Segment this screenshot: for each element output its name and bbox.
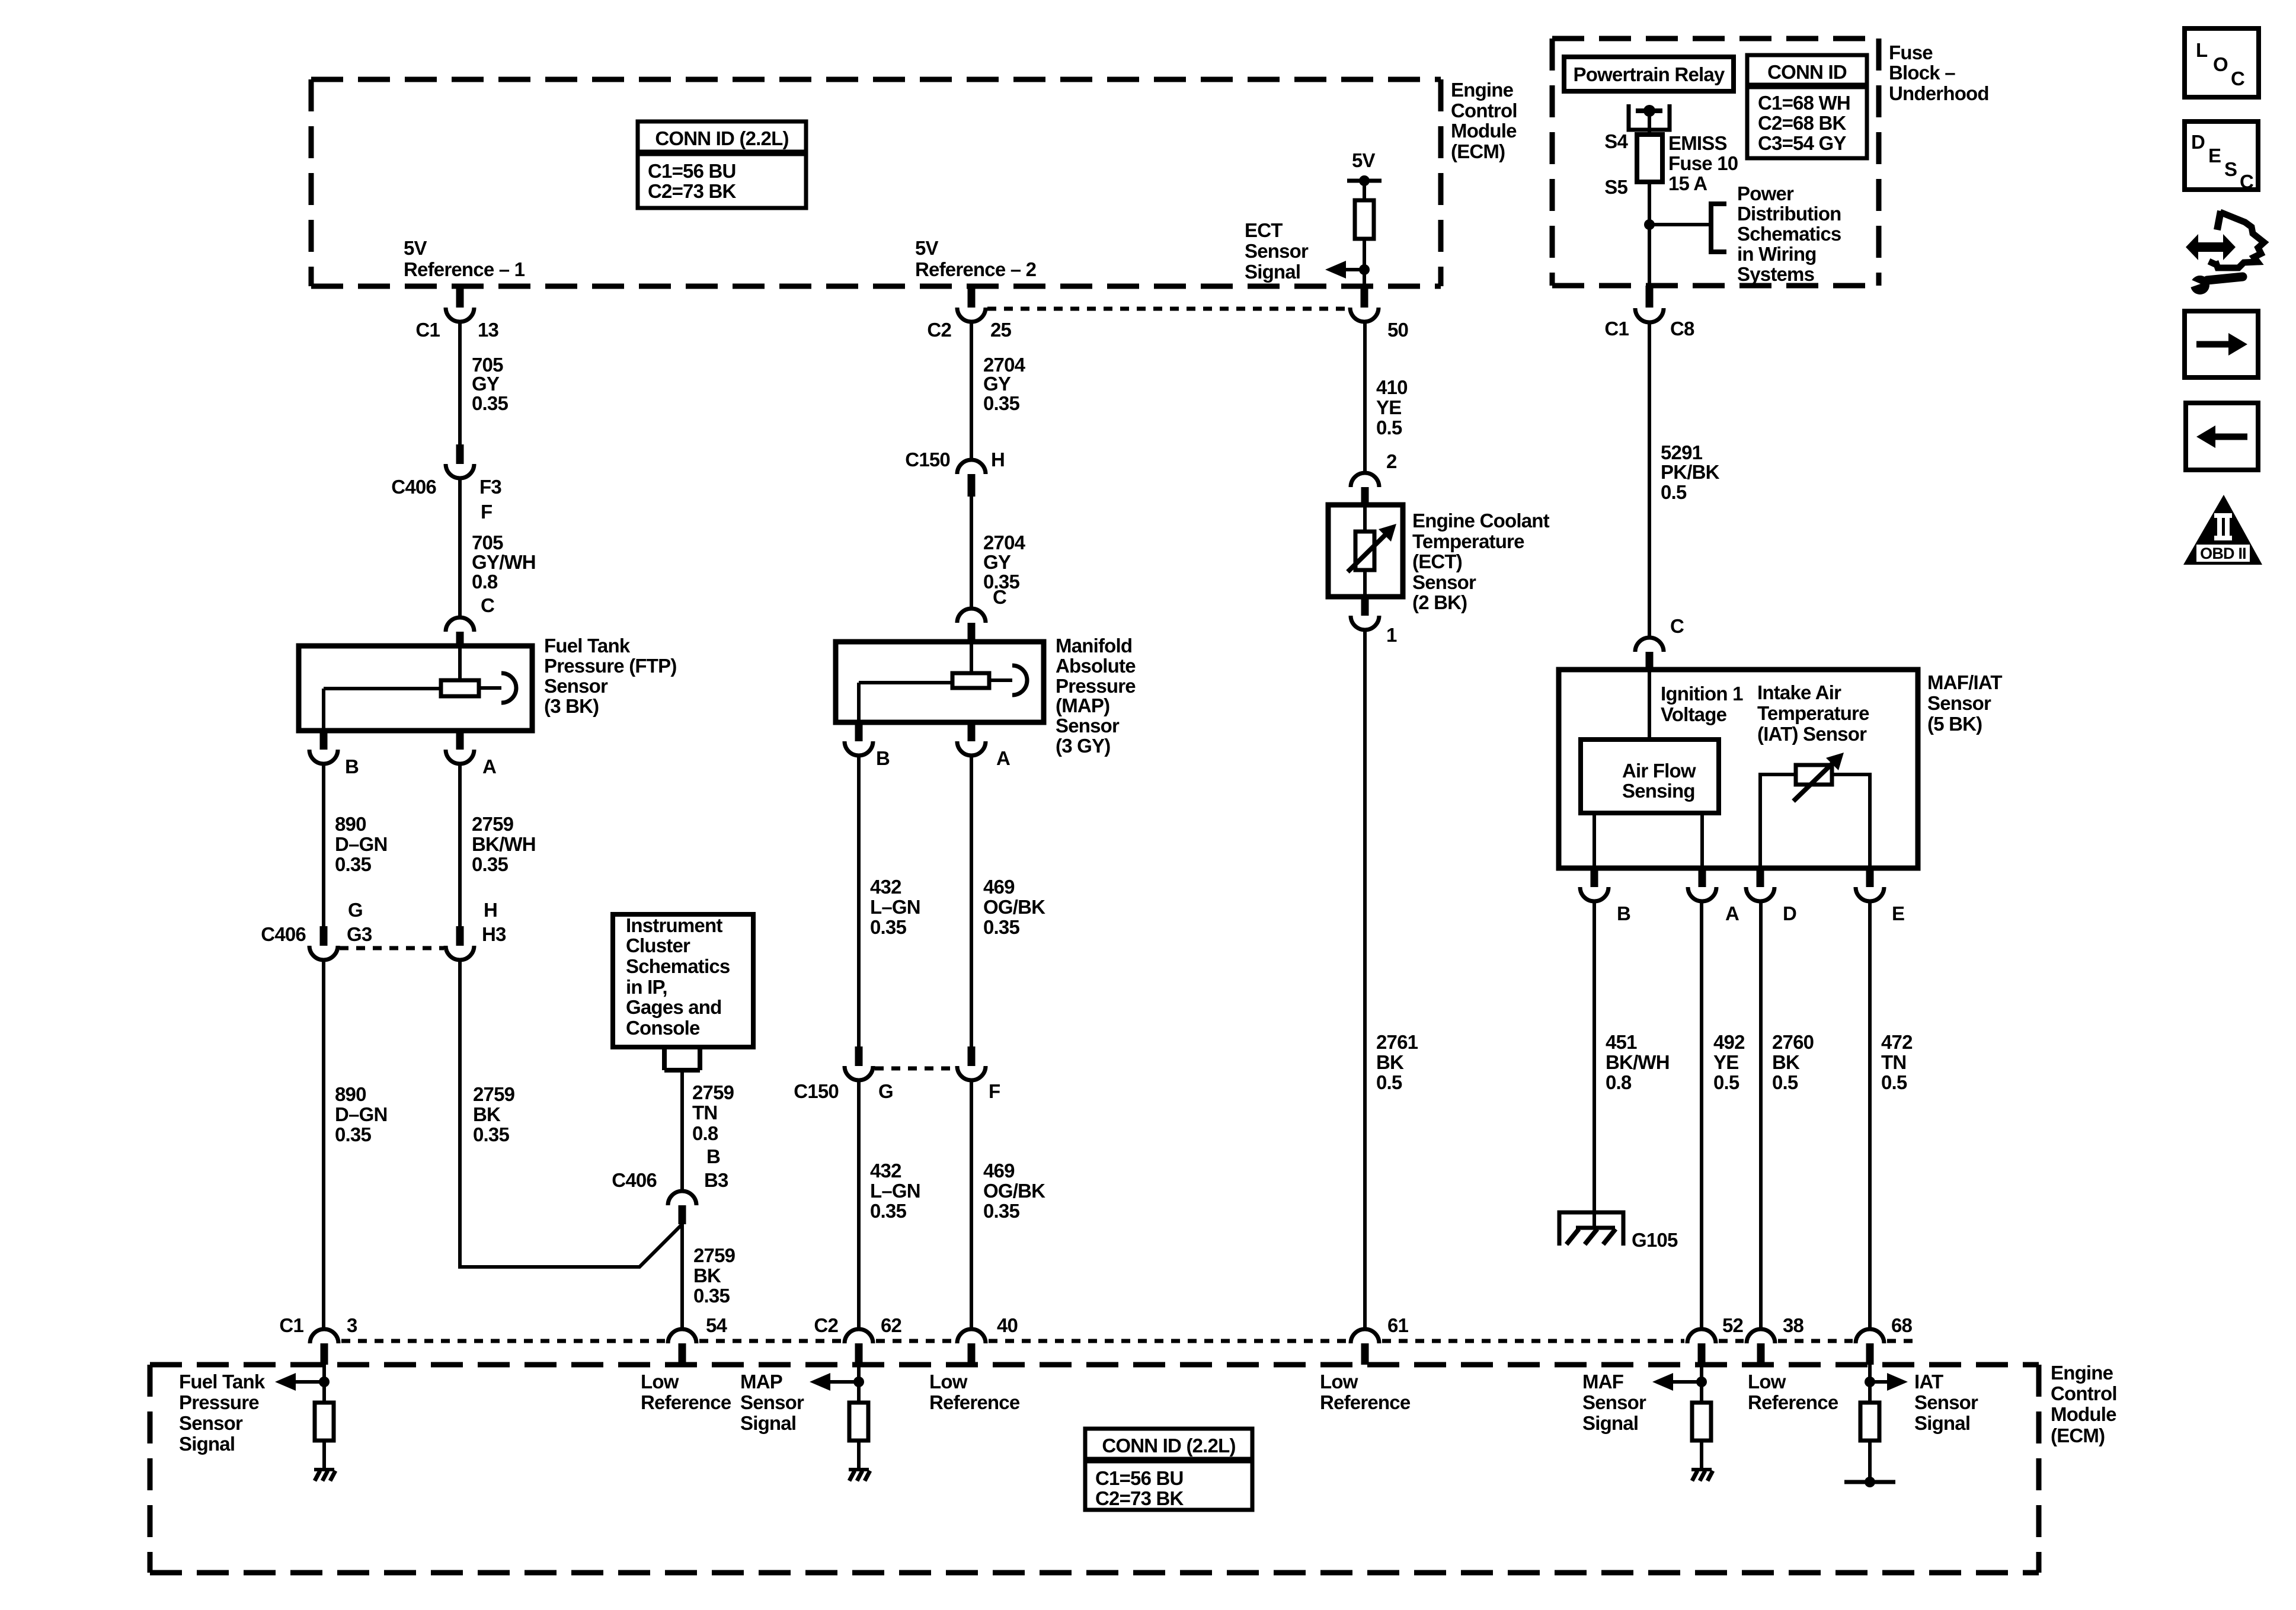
svg-text:Module: Module [1451, 120, 1517, 142]
svg-text:S4: S4 [1604, 130, 1628, 152]
svg-text:2761: 2761 [1376, 1031, 1418, 1053]
wire 492 YE 0.5 to 52 [1700, 901, 1703, 1330]
svg-text:C2: C2 [814, 1314, 838, 1336]
svg-text:Fuel Tank: Fuel Tank [544, 635, 631, 657]
svg-text:B3: B3 [704, 1169, 728, 1191]
svg-text:Low: Low [929, 1371, 968, 1393]
connector pin 40 (ECM bottom) [957, 1314, 1018, 1365]
label Intake Air Temperature (IAT) Sensor [1757, 681, 1869, 745]
svg-text:5V: 5V [1352, 149, 1376, 171]
connector C150 pin G inline [794, 1046, 893, 1102]
svg-text:0.35: 0.35 [870, 1200, 906, 1222]
svg-text:5291: 5291 [1661, 441, 1703, 463]
svg-text:C2: C2 [927, 319, 951, 341]
svg-text:Air Flow: Air Flow [1622, 760, 1696, 782]
svg-text:GY/WH: GY/WH [472, 551, 536, 573]
label wire 890 D-GN 0.35 [335, 813, 388, 875]
label Fuel Tank Pressure Sensor Signal [179, 1371, 266, 1455]
svg-text:Absolute: Absolute [1056, 655, 1136, 677]
svg-text:G: G [348, 899, 363, 921]
MAF internal pin B lead [1593, 813, 1596, 868]
wire 472 TN 0.5 to 68 [1868, 901, 1872, 1330]
svg-text:Pressure: Pressure [179, 1391, 259, 1413]
svg-text:Sensor: Sensor [1582, 1391, 1646, 1413]
svg-text:2759: 2759 [472, 813, 514, 835]
connector C1 pin C8 (fuse block) [1604, 286, 1694, 340]
svg-text:0.5: 0.5 [1713, 1071, 1739, 1093]
wire 5291 PK/BK 0.5 [1648, 322, 1651, 638]
wire resistor to ground [322, 1441, 326, 1470]
svg-text:BK: BK [1772, 1051, 1800, 1073]
svg-text:BK: BK [693, 1265, 721, 1286]
svg-text:Reference – 2: Reference – 2 [915, 258, 1037, 280]
connector C150 pin F inline [957, 1046, 1000, 1102]
svg-text:H: H [484, 899, 497, 921]
svg-text:C: C [993, 586, 1006, 608]
wire relay to fuse [1648, 111, 1651, 135]
resistor ECT pull-up inside ECM [1355, 200, 1374, 239]
svg-text:OBD II: OBD II [2200, 545, 2246, 562]
svg-text:0.8: 0.8 [472, 571, 498, 593]
svg-text:Low: Low [641, 1371, 679, 1393]
svg-text:H3: H3 [482, 923, 506, 945]
connector pin 61 (ECM bottom) [1351, 1314, 1409, 1365]
svg-text:Fuse 10: Fuse 10 [1668, 152, 1738, 174]
svg-text:D: D [2191, 131, 2205, 153]
relay output terminal bracket [1629, 104, 1670, 130]
ground G105 [1559, 1212, 1678, 1251]
svg-text:Control: Control [1451, 100, 1517, 121]
svg-text:Low: Low [1320, 1371, 1358, 1393]
ECT sensor box [1328, 505, 1403, 597]
svg-text:Sensor: Sensor [740, 1391, 804, 1413]
label Low Reference (40) [929, 1371, 1020, 1413]
svg-text:C: C [481, 594, 494, 616]
svg-text:C1=68 WH: C1=68 WH [1758, 92, 1850, 114]
svg-text:54: 54 [706, 1314, 728, 1336]
wire 2761 BK 0.5 to pin 61 [1363, 630, 1367, 1330]
ECT internal lead bottom [1363, 570, 1367, 597]
wire 2759 BK 0.35 from H3 [460, 960, 682, 1267]
label wire 2704 GY 0.35 [983, 354, 1026, 414]
label Power Distribution Schematics in Wiring Systems [1737, 183, 1841, 285]
connector FTP pin A [446, 731, 496, 777]
svg-text:2: 2 [1386, 450, 1397, 472]
label Fuse Block - Underhood [1889, 41, 1989, 104]
label wire 705 GY 0.35 [472, 354, 508, 414]
label wire 2759 BK/WH 0.35 [472, 813, 536, 875]
svg-text:Powertrain Relay: Powertrain Relay [1574, 63, 1725, 85]
MAP internal pin C lead [970, 642, 973, 673]
connector FTP pin C [446, 617, 474, 646]
svg-text:CONN ID: CONN ID [1767, 61, 1847, 83]
svg-text:410: 410 [1376, 376, 1408, 398]
label wire 451 BK/WH 0.8 [1606, 1031, 1670, 1093]
MAF/IAT sensor box [1559, 670, 1918, 868]
svg-text:15 A: 15 A [1668, 172, 1707, 194]
svg-text:H: H [991, 449, 1005, 470]
wire 469 OG/BK 0.35 lower to 40 [970, 1080, 973, 1330]
connector pin 38 (ECM bottom) [1747, 1314, 1804, 1365]
svg-text:YE: YE [1713, 1051, 1738, 1073]
svg-text:Power: Power [1737, 183, 1794, 204]
svg-text:C1: C1 [415, 319, 440, 341]
svg-text:Engine Coolant: Engine Coolant [1412, 510, 1550, 532]
svg-text:A: A [996, 747, 1010, 769]
label Engine Control Module (ECM) bottom right [2051, 1362, 2117, 1446]
label MAP Sensor Signal [740, 1371, 804, 1434]
svg-text:890: 890 [335, 813, 366, 835]
svg-text:0.35: 0.35 [335, 1124, 371, 1145]
wire IAT signal arrow [1865, 1373, 1908, 1391]
svg-text:OG/BK: OG/BK [983, 1180, 1045, 1202]
svg-text:Temperature: Temperature [1412, 530, 1524, 552]
label Fuel Tank Pressure (FTP) Sensor (3 BK) [544, 635, 677, 717]
SEC_ECTCOL2 [1559, 322, 2002, 1330]
svg-text:Control: Control [2051, 1382, 2117, 1404]
svg-text:0.8: 0.8 [1606, 1071, 1632, 1093]
svg-text:Sensor: Sensor [1412, 571, 1476, 593]
svg-text:62: 62 [881, 1314, 902, 1336]
svg-text:Block –: Block – [1889, 62, 1955, 84]
svg-text:(5 BK): (5 BK) [1927, 713, 1982, 735]
svg-text:0.35: 0.35 [983, 1200, 1019, 1222]
ECM top dashed box [311, 79, 1441, 286]
SEC_SIDEBAR2 [261, 322, 682, 1330]
connector pin 68 (ECM bottom) [1856, 1314, 1913, 1365]
MAF internal ignition lead [1648, 670, 1651, 740]
svg-text:Low: Low [1748, 1371, 1786, 1393]
label wire 2761 BK 0.5 [1376, 1031, 1418, 1093]
wire 705 GY 0.35 [458, 322, 462, 444]
svg-text:BK: BK [473, 1103, 501, 1125]
wire pin3 to resistor [322, 1365, 326, 1403]
wire dashed C150 coupling [875, 1067, 955, 1071]
ground MAP signal [849, 1470, 870, 1481]
wire 410 YE 0.5 [1363, 322, 1367, 473]
svg-text:Schematics: Schematics [626, 955, 730, 977]
svg-text:CONN ID (2.2L): CONN ID (2.2L) [1102, 1435, 1235, 1457]
svg-text:C8: C8 [1670, 318, 1694, 340]
svg-text:D: D [1783, 902, 1796, 924]
wire 890 D-GN 0.35 upper [322, 764, 325, 926]
svg-text:E: E [1892, 902, 1904, 924]
node junction dot power distribution tap [1644, 219, 1655, 230]
svg-text:1: 1 [1386, 624, 1397, 646]
svg-text:Engine: Engine [2051, 1362, 2113, 1384]
wire 432 L-GN 0.35 lower to 62 [857, 1080, 861, 1330]
svg-text:F: F [989, 1080, 1000, 1102]
wire MAF signal arrow [1652, 1373, 1707, 1391]
label wire 2760 BK 0.5 [1772, 1031, 1814, 1093]
FTP internal ground lead [324, 689, 441, 731]
svg-text:890: 890 [335, 1083, 366, 1105]
IAT thermistor element [1796, 765, 1832, 785]
wire resistor to terminal [1868, 1441, 1872, 1482]
svg-text:Sensing: Sensing [1622, 780, 1695, 802]
svg-text:0.35: 0.35 [870, 916, 906, 938]
svg-text:Underhood: Underhood [1889, 82, 1989, 104]
connector MAP pin A [957, 722, 1010, 769]
ECM bottom dashed box [150, 1365, 2039, 1573]
svg-text:D–GN: D–GN [335, 1103, 388, 1125]
svg-text:2704: 2704 [983, 532, 1026, 553]
wire pin68 to resistor [1868, 1365, 1872, 1403]
SEC_TOPECM2 [1552, 39, 1989, 340]
CONN ID (2.2L) table bottom [1085, 1429, 1252, 1510]
ECT internal lead top [1363, 505, 1367, 532]
svg-text:D–GN: D–GN [335, 833, 388, 855]
label Engine Coolant Temperature (ECT) Sensor (2 BK) [1412, 510, 1550, 613]
Powertrain Relay box [1564, 57, 1734, 91]
svg-text:469: 469 [983, 1160, 1015, 1182]
svg-text:Signal: Signal [1914, 1412, 1970, 1434]
svg-text:BK: BK [1376, 1051, 1404, 1073]
svg-text:38: 38 [1783, 1314, 1804, 1336]
svg-text:CONN ID (2.2L): CONN ID (2.2L) [655, 127, 788, 149]
MAF internal pin A lead [1700, 813, 1704, 868]
svg-text:Signal: Signal [1582, 1412, 1638, 1434]
svg-text:5V: 5V [915, 237, 939, 259]
connector ECT pin 1 [1351, 597, 1397, 646]
svg-text:A: A [1725, 902, 1739, 924]
icon OBD II triangle [2183, 495, 2262, 565]
SEC_MAFCOL2 [150, 1314, 2117, 1573]
svg-text:A: A [482, 756, 496, 777]
connector C406 pin G3/G inline [261, 899, 372, 960]
net label 5V Reference - 1 [404, 237, 525, 280]
connector pin 50 (ECM ECT signal) [1350, 286, 1408, 341]
svg-text:in IP,: in IP, [626, 976, 667, 998]
svg-text:0.8: 0.8 [692, 1122, 718, 1144]
svg-text:25: 25 [990, 319, 1012, 341]
svg-text:0.35: 0.35 [472, 392, 508, 414]
svg-text:B: B [345, 756, 359, 777]
wire 2759 BK/WH 0.35 [458, 764, 462, 926]
svg-text:Sensor: Sensor [1914, 1391, 1978, 1413]
svg-text:Signal: Signal [179, 1433, 235, 1455]
connector MAP pin B [845, 722, 890, 769]
connector FTP pin B [309, 731, 359, 777]
connector C1 pin 3 (ECM bottom) [279, 1314, 357, 1365]
label wire 432 L-GN 0.35 [870, 876, 920, 938]
svg-text:Fuel Tank: Fuel Tank [179, 1371, 266, 1393]
connector C406 pin B3 inline [612, 1169, 728, 1224]
svg-text:Signal: Signal [1245, 261, 1300, 283]
svg-text:451: 451 [1606, 1031, 1637, 1053]
connector pin 52 (ECM bottom) [1687, 1314, 1744, 1365]
wire resistor to ground [1700, 1441, 1703, 1470]
SEC_FUSEBLOCK2 [2183, 28, 2264, 565]
resistor MAP signal load [849, 1403, 868, 1441]
svg-text:EMISS: EMISS [1668, 132, 1727, 154]
label wire 2704 GY 0.35 lower [983, 532, 1026, 593]
wire MAP signal arrow [810, 1373, 864, 1391]
wire 5V to resistor [1363, 181, 1366, 200]
svg-text:0.35: 0.35 [473, 1124, 509, 1145]
svg-text:0.5: 0.5 [1881, 1071, 1907, 1093]
label wire 890 D-GN 0.35 lower [335, 1083, 388, 1145]
label Ignition 1 Voltage [1661, 683, 1743, 725]
svg-text:C406: C406 [391, 476, 436, 498]
MAP internal ground lead [859, 683, 952, 722]
CONN ID table fuse block [1747, 55, 1867, 158]
svg-text:L: L [2196, 39, 2208, 61]
svg-text:0.35: 0.35 [693, 1285, 730, 1307]
svg-text:C2=68 BK: C2=68 BK [1758, 112, 1847, 134]
svg-text:Reference – 1: Reference – 1 [404, 258, 525, 280]
connector MAP pin C [957, 609, 986, 642]
svg-text:0.35: 0.35 [983, 916, 1019, 938]
svg-text:PK/BK: PK/BK [1661, 461, 1720, 483]
wire 890 D-GN 0.35 lower to pin 3 [322, 960, 325, 1330]
svg-text:0.5: 0.5 [1376, 1071, 1402, 1093]
svg-text:Cluster: Cluster [626, 934, 690, 956]
SEC_CLUSTER2 [794, 322, 1136, 1330]
Fuse Block Underhood dashed box [1552, 39, 1879, 286]
svg-text:(MAP): (MAP) [1056, 694, 1109, 716]
FTP sensor box [299, 646, 532, 731]
net label 5V Reference - 2 [915, 237, 1037, 280]
label wire 469 OG/BK 0.35 lower [983, 1160, 1045, 1222]
svg-text:MAP: MAP [740, 1371, 782, 1393]
wire pin62 to resistor [857, 1365, 861, 1403]
svg-text:Ignition 1: Ignition 1 [1661, 683, 1743, 705]
svg-text:2760: 2760 [1772, 1031, 1814, 1053]
svg-text:0.35: 0.35 [335, 853, 371, 875]
svg-text:C150: C150 [794, 1080, 839, 1102]
svg-text:(3 BK): (3 BK) [544, 695, 599, 717]
svg-text:C2=73 BK: C2=73 BK [648, 180, 737, 202]
svg-text:Reference: Reference [1320, 1391, 1411, 1413]
resistor FTP signal load [315, 1403, 334, 1441]
icon forward arrow box [2185, 311, 2258, 377]
wire fuse down to box edge [1648, 182, 1651, 286]
svg-text:B: B [876, 747, 890, 769]
svg-text:C: C [2240, 171, 2253, 193]
ground MAF signal [1691, 1470, 1713, 1481]
label ECT Sensor Signal [1245, 219, 1309, 283]
svg-text:ECT: ECT [1245, 219, 1283, 241]
label wire 469 OG/BK 0.35 [983, 876, 1045, 938]
svg-text:40: 40 [997, 1314, 1018, 1336]
svg-text:B: B [1617, 902, 1630, 924]
node IAT low reference terminal [1844, 1477, 1895, 1487]
connector C150 pin H inline [905, 449, 1005, 497]
ECT thermistor element [1355, 532, 1374, 570]
svg-text:Reference: Reference [929, 1391, 1020, 1413]
svg-text:61: 61 [1387, 1314, 1409, 1336]
wire 2704 GY 0.35 lower [970, 497, 973, 609]
svg-text:C406: C406 [261, 923, 306, 945]
svg-text:G3: G3 [347, 923, 372, 945]
IAT internal pin D lead [1760, 774, 1796, 868]
node junction dot ECT signal [1359, 264, 1370, 275]
label IAT Sensor Signal [1914, 1371, 1978, 1434]
connector MAF pin B [1580, 868, 1630, 924]
svg-text:Intake Air: Intake Air [1757, 681, 1841, 703]
label wire 410 YE 0.5 [1376, 376, 1408, 438]
svg-text:2759: 2759 [692, 1081, 734, 1103]
resistor IAT signal load [1860, 1403, 1879, 1441]
svg-text:Console: Console [626, 1017, 700, 1039]
svg-text:492: 492 [1713, 1031, 1745, 1053]
svg-text:BK/WH: BK/WH [472, 833, 536, 855]
IAT variable arrow [1793, 753, 1844, 801]
svg-text:(ECM): (ECM) [2051, 1425, 2105, 1446]
icon adjust wrench [2186, 211, 2264, 295]
label MAF Sensor Signal [1582, 1371, 1646, 1434]
svg-text:(2 BK): (2 BK) [1412, 591, 1467, 613]
ground FTP signal [314, 1470, 335, 1481]
label Low Reference (38) [1748, 1371, 1838, 1413]
connector MAF pin C [1635, 638, 1664, 670]
svg-text:Fuse: Fuse [1889, 41, 1933, 63]
svg-text:472: 472 [1881, 1031, 1913, 1053]
FTP internal pressure port [479, 673, 516, 703]
label wire 2759 BK 0.35 [473, 1083, 515, 1145]
connector C1 pin 13 (ECM) [415, 286, 498, 341]
svg-text:5V: 5V [404, 237, 427, 259]
wire ECT signal arrow [1325, 261, 1364, 279]
svg-text:Sensor: Sensor [544, 675, 608, 697]
svg-text:0.35: 0.35 [472, 853, 508, 875]
connector pin 54 (ECM bottom) [668, 1314, 728, 1365]
svg-text:0.35: 0.35 [983, 392, 1019, 414]
svg-text:C: C [2231, 68, 2244, 89]
wire dotted ECM connector plane C2 [987, 307, 1349, 311]
connector C406 pin H3/H inline [446, 899, 506, 960]
Instrument Cluster reference box [613, 914, 753, 1047]
wire FTP signal arrow [275, 1373, 330, 1391]
svg-text:S5: S5 [1604, 176, 1627, 198]
label: Engine Control Module (ECM) top right [1451, 79, 1517, 162]
svg-text:MAF/IAT: MAF/IAT [1927, 671, 2002, 693]
connector C2 pin 62 (ECM bottom) [814, 1314, 901, 1365]
wire 2704 GY 0.35 upper [970, 322, 973, 460]
Air Flow Sensing box [1581, 740, 1719, 813]
svg-text:GY: GY [472, 373, 500, 395]
connector C2 pin 25 (ECM) [927, 286, 1011, 341]
svg-text:TN: TN [692, 1102, 717, 1124]
wire 451 BK/WH 0.8 to G105 [1593, 901, 1596, 1228]
svg-text:C3=54 GY: C3=54 GY [1758, 132, 1846, 154]
MAP internal pressure port [989, 665, 1027, 695]
label wire 2759 TN 0.8 [692, 1081, 734, 1144]
SEC_LEFTCOL2 [612, 914, 753, 1330]
svg-text:Sensor: Sensor [179, 1412, 243, 1434]
cluster output bracket [664, 1047, 700, 1070]
svg-text:GY: GY [983, 551, 1011, 573]
svg-text:Voltage: Voltage [1661, 703, 1727, 725]
label Low Reference (61) [1320, 1371, 1411, 1413]
svg-text:Gages and: Gages and [626, 996, 722, 1018]
svg-text:469: 469 [983, 876, 1015, 898]
icon back arrow box [2186, 403, 2258, 470]
icon LOC box [2185, 28, 2259, 97]
wire dotted ECM bottom connector plane [341, 1339, 1920, 1343]
svg-text:Sensor: Sensor [1927, 692, 1991, 714]
label Manifold Absolute Pressure (MAP) Sensor (3 GY) [1056, 635, 1136, 757]
IAT internal pin E lead [1832, 774, 1870, 868]
label wire 432 L-GN 0.35 lower [870, 1160, 920, 1222]
svg-text:52: 52 [1722, 1314, 1744, 1336]
svg-text:B: B [706, 1145, 720, 1167]
CONN ID (2.2L) table top [638, 121, 806, 208]
svg-text:3: 3 [347, 1314, 357, 1336]
label MAF/IAT Sensor (5 BK) [1927, 671, 2002, 735]
svg-text:L–GN: L–GN [870, 1180, 920, 1202]
